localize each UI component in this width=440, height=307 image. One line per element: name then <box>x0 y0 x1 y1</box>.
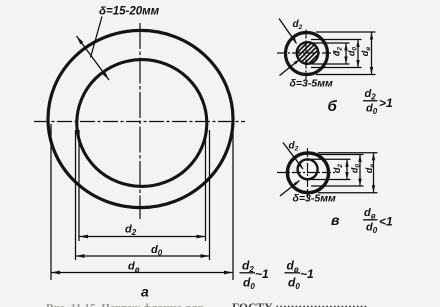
horizontal centerline <box>34 121 245 123</box>
leader delta b <box>280 60 300 76</box>
dimension line dv <box>51 272 233 274</box>
hatched disk b <box>297 42 319 64</box>
svg-text:d2: d2 <box>332 47 344 57</box>
leader d2 v <box>283 143 303 170</box>
leader from delta label <box>91 17 103 58</box>
dimension line d2 <box>79 236 206 238</box>
svg-text:Рис. 11.15. Чертеж фланца для: Рис. 11.15. Чертеж фланца для <box>46 303 204 307</box>
dimension dv v <box>373 153 375 193</box>
svg-text:в: в <box>331 212 340 228</box>
svg-text:d0: d0 <box>243 276 255 292</box>
svg-text:δ=3-5мм: δ=3-5мм <box>290 78 333 90</box>
svg-text:d0: d0 <box>288 276 300 292</box>
svg-text:d0: d0 <box>366 222 378 236</box>
svg-text:d2: d2 <box>289 141 299 153</box>
extension lines d0 v <box>311 154 364 156</box>
extension line d0 right <box>209 130 211 260</box>
extension lines d0 b <box>311 39 362 41</box>
svg-text:d2: d2 <box>365 88 377 102</box>
svg-text:dв: dв <box>364 164 376 174</box>
outer circle b <box>286 33 328 75</box>
svg-text:d0: d0 <box>347 47 359 57</box>
extension lines d2 v <box>311 158 351 160</box>
svg-text:~1: ~1 <box>255 267 269 281</box>
svg-text:ГОСТУ ::::::::::::::::::::::::: ГОСТУ :::::::::::::::::::::::: <box>232 302 367 307</box>
vertical centerline b <box>305 30 307 81</box>
svg-text:~1: ~1 <box>300 267 314 281</box>
horizontal centerline v <box>277 172 338 174</box>
extension line dv right <box>232 124 234 280</box>
dimension dv b <box>371 32 373 75</box>
svg-text:а: а <box>141 284 149 300</box>
extension line d0 left <box>75 130 77 260</box>
dimension line d0 <box>76 255 210 257</box>
extension lines dv v <box>318 152 378 154</box>
extension lines dv b <box>316 31 376 33</box>
svg-text:dв: dв <box>360 47 372 57</box>
extension line dv left <box>50 124 52 280</box>
svg-text:d0: d0 <box>151 244 163 258</box>
leader delta v <box>280 181 300 197</box>
leader d2 b <box>279 19 297 44</box>
svg-text:>1: >1 <box>379 96 393 110</box>
inner circle v <box>298 159 318 179</box>
svg-text:dв: dв <box>128 261 140 275</box>
vertical centerline v <box>307 148 309 198</box>
vertical centerline <box>139 23 141 219</box>
dimension d2 v <box>346 159 348 179</box>
delta thickness dimension line <box>77 36 110 80</box>
extension line d2 left <box>78 130 80 241</box>
extension lines d2 b <box>311 42 350 44</box>
svg-text:d2: d2 <box>332 164 344 174</box>
svg-text:d2: d2 <box>242 259 254 275</box>
dimension d0 v <box>359 155 361 187</box>
svg-text:δ=15-20мм: δ=15-20мм <box>99 6 160 18</box>
outer circle v <box>287 153 328 193</box>
svg-text:<1: <1 <box>379 215 393 229</box>
svg-text:d2: d2 <box>125 224 137 238</box>
outer circle (d_v) <box>48 30 233 207</box>
inner circle (d2) <box>77 60 207 187</box>
svg-text:d2: d2 <box>293 19 303 31</box>
dimension d2 b <box>345 43 347 64</box>
extension line d2 right <box>205 130 207 241</box>
horizontal centerline b <box>277 52 338 54</box>
svg-text:d0: d0 <box>366 103 378 117</box>
dimension d0 b <box>357 40 359 68</box>
svg-text:б: б <box>328 98 338 115</box>
svg-text:dв: dв <box>364 207 376 221</box>
svg-text:dв: dв <box>287 259 299 275</box>
svg-text:δ=3-5мм: δ=3-5мм <box>293 193 336 205</box>
